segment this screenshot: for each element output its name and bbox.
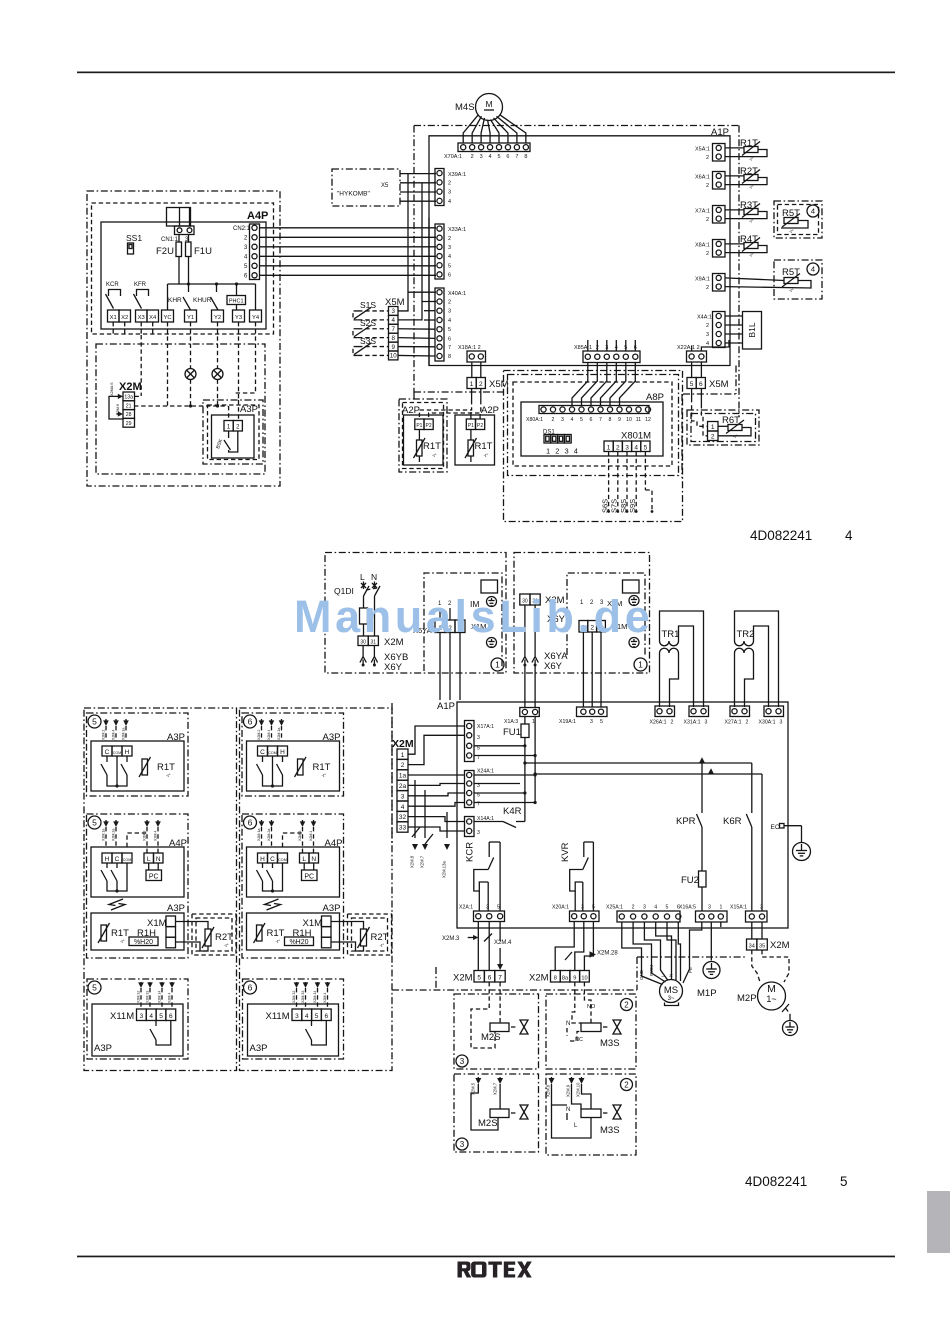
terminal strip X5M rows 3-10 — [389, 307, 399, 316]
scrap boundary dash-dot near pumps — [637, 956, 745, 958]
indoor unit IM enclosure right (dash-dot) — [567, 573, 645, 655]
svg-text:M2S: M2S — [478, 1118, 498, 1129]
detail-1 badge left — [491, 658, 504, 671]
svg-text:2: 2 — [401, 762, 405, 769]
A8P dashed enclosure — [513, 382, 672, 466]
svg-text:COM: COM — [268, 751, 276, 755]
svg-text:8a: 8a — [562, 975, 569, 981]
connector X6A — [713, 172, 726, 190]
svg-text:H: H — [260, 856, 265, 863]
svg-text:2: 2 — [706, 285, 709, 291]
svg-text:A3P: A3P — [167, 903, 185, 914]
svg-text:5: 5 — [315, 1013, 319, 1020]
svg-text:S8S: S8S — [619, 499, 628, 513]
motor M4S — [476, 94, 503, 121]
svg-text:X80A:1: X80A:1 — [526, 417, 543, 423]
svg-text:KVR: KVR — [560, 842, 571, 862]
svg-text:9: 9 — [391, 344, 395, 351]
svg-text:3~: 3~ — [668, 996, 675, 1002]
svg-text:R1T: R1T — [157, 762, 175, 773]
svg-text:1: 1 — [495, 660, 500, 670]
svg-text:12: 12 — [645, 417, 651, 423]
svg-text:P2: P2 — [477, 423, 483, 429]
terminal Y3 — [233, 310, 245, 322]
svg-text:2: 2 — [448, 236, 451, 242]
dashed link to L N — [127, 833, 147, 847]
PCB A2P right outline — [455, 415, 495, 465]
svg-text:1: 1 — [711, 424, 715, 431]
wires X2A down to X2M 5 6 7 — [477, 922, 479, 972]
svg-text:C: C — [115, 856, 120, 863]
svg-text:X39A:1: X39A:1 — [448, 172, 466, 178]
svg-text:X4A:1: X4A:1 — [697, 315, 712, 321]
svg-text:Y1: Y1 — [187, 315, 194, 321]
PCB A3P humidity outline — [91, 913, 184, 950]
interface arrows — [265, 899, 279, 906]
svg-text:KFR: KFR — [134, 282, 147, 288]
bus wires X24A — [474, 774, 535, 776]
svg-text:35: 35 — [759, 943, 765, 949]
svg-text:2: 2 — [706, 183, 709, 189]
ROTEX logo — [457, 1262, 531, 1278]
sensor R2T — [361, 929, 367, 946]
svg-text:X27A:1: X27A:1 — [725, 720, 742, 726]
svg-text:6: 6 — [169, 1013, 173, 1020]
connector X40A — [435, 288, 444, 361]
svg-text:11: 11 — [636, 417, 641, 423]
svg-text:6: 6 — [244, 273, 248, 279]
svg-text:5: 5 — [497, 905, 500, 911]
sensor option box R5T upper — [774, 201, 822, 238]
svg-text:6: 6 — [506, 154, 509, 160]
M2P switch and earth — [782, 1004, 789, 1012]
svg-text:-t°: -t° — [749, 219, 754, 224]
A4P external option boundary (dash-dot) — [87, 191, 280, 486]
svg-text:1a: 1a — [399, 773, 407, 780]
svg-text:X2M.8: X2M.8 — [546, 1084, 551, 1097]
sensor R2T — [205, 929, 211, 946]
terminal strip X2M rows — [123, 392, 135, 401]
terminal Y1 — [185, 310, 197, 322]
pressure sensor R1T in A2P left — [417, 440, 423, 456]
svg-text:5: 5 — [690, 381, 694, 388]
connector X24A — [465, 771, 475, 808]
svg-text:4: 4 — [845, 528, 853, 543]
svg-text:1 2 3 4: 1 2 3 4 — [546, 447, 579, 456]
connector CN2 — [250, 224, 260, 280]
wires X85A down to X80A — [572, 363, 588, 407]
wires X1M to R2T — [176, 922, 209, 930]
svg-text:8: 8 — [448, 354, 451, 360]
thermostat contacts — [106, 756, 108, 762]
IM terminals 1 2 3 left — [435, 620, 445, 633]
svg-text:5: 5 — [448, 263, 451, 269]
svg-text:X2M: X2M — [529, 973, 549, 984]
svg-text:F2U: F2U — [156, 246, 174, 257]
tap wires to X40A rows 1-2 — [408, 174, 436, 293]
transformer TR2 — [735, 611, 779, 707]
terminal Y2 — [212, 310, 224, 322]
wire Y4 feed — [255, 284, 257, 310]
svg-text:4: 4 — [706, 341, 709, 347]
wires IM left down to A1P — [439, 671, 441, 700]
A8P outer enclosure (dash-dot) — [504, 371, 683, 522]
svg-text:8: 8 — [391, 335, 395, 342]
svg-text:X2M: X2M — [392, 738, 414, 750]
field option box detail-1 left (dash-dot) — [325, 553, 506, 674]
field wire arrows B — [261, 820, 263, 824]
wires X9A to R5T — [725, 278, 784, 281]
bottom rule — [77, 1256, 895, 1258]
svg-text:X2M.32: X2M.32 — [137, 991, 141, 1003]
terminals C COM H — [258, 746, 268, 756]
svg-text:-t°: -t° — [166, 773, 171, 778]
wire to X15A:3 — [761, 774, 763, 911]
svg-text:X16A:5: X16A:5 — [679, 905, 696, 911]
svg-text:K6R: K6R — [723, 816, 742, 827]
svg-text:X2M.1a: X2M.1a — [102, 829, 106, 841]
svg-text:R1T: R1T — [475, 441, 493, 452]
wires X2M to X24A — [408, 774, 465, 776]
PCB A4P outline — [101, 222, 266, 329]
svg-text:R1T: R1T — [111, 928, 129, 939]
svg-text:3: 3 — [625, 444, 629, 451]
svg-text:KHR: KHR — [168, 297, 182, 304]
svg-text:N: N — [311, 856, 316, 863]
field wiring dash-dot right of A8P — [683, 393, 736, 395]
connector X4A — [713, 312, 726, 348]
svg-text:X2M.2a: X2M.2a — [112, 829, 116, 841]
svg-text:X1M: X1M — [147, 918, 167, 929]
svg-text:7: 7 — [391, 326, 395, 333]
svg-text:2: 2 — [706, 155, 709, 161]
earth in IM left lower — [487, 638, 497, 648]
svg-text:B1L: B1L — [747, 322, 757, 337]
pump M1P earth — [703, 962, 720, 979]
svg-text:X2M.14: X2M.14 — [313, 991, 317, 1003]
wires X85A up — [587, 340, 589, 351]
svg-text:2: 2 — [711, 434, 715, 441]
svg-text:NC: NC — [575, 1037, 583, 1043]
lamp on Y1 wire — [190, 322, 192, 369]
svg-text:X26A:1: X26A:1 — [650, 720, 667, 726]
svg-text:29: 29 — [126, 421, 132, 427]
svg-text:X15A:1: X15A:1 — [730, 905, 747, 911]
svg-text:2: 2 — [671, 720, 674, 726]
plug X6YA X6Y right — [524, 605, 526, 656]
svg-text:6: 6 — [590, 417, 593, 423]
svg-text:H: H — [280, 749, 285, 756]
connector X5A — [713, 144, 726, 162]
svg-text:R1T: R1T — [267, 928, 285, 939]
svg-text:X9A:1: X9A:1 — [695, 277, 710, 283]
svg-text:1: 1 — [401, 752, 405, 759]
svg-text:2: 2 — [479, 381, 483, 388]
svg-text:M: M — [485, 99, 492, 109]
svg-text:PC: PC — [149, 874, 159, 881]
connector CN1 — [175, 226, 195, 235]
svg-text:-t°: -t° — [484, 453, 489, 458]
field wires going down sheet — [414, 780, 416, 838]
wires X4A to B1L — [725, 315, 743, 317]
svg-text:2: 2 — [624, 1000, 629, 1009]
svg-text:X2M.1a: X2M.1a — [277, 728, 281, 740]
room thermostat box A3P (dash-dot) — [87, 713, 189, 796]
svg-text:3: 3 — [705, 720, 708, 726]
svg-text:M4S: M4S — [455, 102, 475, 113]
svg-text:6: 6 — [248, 818, 253, 828]
svg-text:4: 4 — [811, 207, 815, 216]
svg-text:SS1: SS1 — [126, 233, 142, 243]
detail badge B — [88, 816, 101, 829]
svg-text:M3S: M3S — [600, 1125, 620, 1136]
wires X801M to remote switches — [608, 452, 610, 512]
svg-text:X11M: X11M — [110, 1011, 134, 1022]
svg-text:X2M.32: X2M.32 — [292, 991, 296, 1003]
terminals H C COM col — [102, 853, 112, 863]
A1P switchbox boundary (dash-dot) — [414, 125, 739, 127]
A4P inner dashed enclosure — [92, 203, 274, 334]
svg-text:X1: X1 — [110, 315, 117, 321]
svg-text:-t°: -t° — [789, 229, 794, 234]
svg-text:X2M.2a: X2M.2a — [267, 829, 271, 841]
svg-text:X2M: X2M — [453, 973, 473, 984]
valve M2S upper — [520, 1020, 528, 1034]
A8P enclosure (dash-dot) — [508, 375, 679, 476]
svg-text:2: 2 — [632, 905, 635, 911]
svg-text:X3: X3 — [138, 315, 145, 321]
option column boundary (dash-dot) — [84, 708, 237, 1071]
connector X30A — [764, 706, 784, 717]
svg-text:X5M: X5M — [489, 379, 509, 390]
terminal X801M — [604, 441, 613, 452]
svg-text:X5M: X5M — [709, 379, 729, 390]
valve M3S upper — [613, 1020, 621, 1034]
svg-text:EC: EC — [771, 824, 780, 831]
svg-text:7: 7 — [599, 417, 602, 423]
wires X25A to fan motor — [622, 922, 663, 985]
svg-text:5: 5 — [477, 974, 481, 981]
svg-text:KCR: KCR — [106, 282, 119, 288]
svg-text:N: N — [371, 572, 377, 582]
svg-text:3: 3 — [643, 905, 646, 911]
svg-text:MS: MS — [664, 985, 678, 996]
svg-text:R2T: R2T — [215, 932, 233, 943]
detail-3 badge upper — [456, 1055, 468, 1067]
svg-text:X6Y: X6Y — [544, 661, 563, 672]
svg-text:P2: P2 — [426, 423, 432, 429]
svg-text:KHUR: KHUR — [193, 297, 212, 304]
svg-text:X2M.1a: X2M.1a — [122, 728, 126, 740]
wires IM right down to X19A — [582, 632, 584, 707]
feed wire to KPR — [525, 762, 752, 764]
svg-text:4: 4 — [149, 1013, 153, 1020]
svg-text:X33A:1: X33A:1 — [448, 227, 466, 233]
valve M2S lower — [520, 1105, 528, 1119]
svg-text:N: N — [156, 856, 161, 863]
svg-text:X6Y: X6Y — [384, 662, 403, 673]
wires M4S to X70A — [463, 115, 478, 143]
svg-text:4: 4 — [571, 417, 574, 423]
PCB A3P outline — [212, 415, 255, 458]
svg-text:L: L — [147, 856, 151, 863]
svg-text:X2M.3: X2M.3 — [442, 936, 460, 942]
svg-text:3: 3 — [590, 719, 593, 725]
option box M2S lower (dash-dot) — [454, 1074, 539, 1152]
svg-text:X7A:1: X7A:1 — [695, 209, 710, 215]
dashed link to L N — [283, 833, 303, 847]
svg-text:X2M.33: X2M.33 — [146, 991, 150, 1003]
svg-text:X2M.1a: X2M.1a — [257, 829, 261, 841]
sensor R1T lower — [257, 925, 263, 941]
connector X8A — [713, 240, 726, 258]
svg-text:C: C — [270, 856, 275, 863]
wires X18A to X5M 1 2 — [471, 362, 473, 378]
svg-text:3: 3 — [140, 1013, 144, 1020]
stub wires X40A 3-4 — [424, 310, 435, 312]
svg-text:X6A:1: X6A:1 — [695, 175, 710, 181]
svg-text:5: 5 — [580, 417, 583, 423]
top rule — [77, 72, 895, 74]
svg-text:PWM: PWM — [649, 965, 654, 976]
connector X33A — [435, 224, 444, 279]
cable duct to A4P — [167, 208, 191, 227]
svg-text:4: 4 — [654, 905, 657, 911]
connector X27A — [730, 706, 750, 717]
svg-text:X2M.4: X2M.4 — [323, 993, 327, 1003]
connector X85A — [583, 351, 640, 363]
arrow into X2M 7 — [499, 948, 501, 967]
svg-text:R2T: R2T — [371, 932, 389, 943]
svg-text:R5T: R5T — [782, 267, 800, 278]
option box A2P left — [399, 399, 447, 472]
svg-text:4: 4 — [634, 444, 638, 451]
svg-text:X18A:1 2: X18A:1 2 — [458, 345, 481, 351]
PCB A1P diagram5 outline — [457, 702, 788, 928]
svg-text:6: 6 — [699, 381, 703, 388]
connector X7A — [713, 206, 726, 224]
svg-text:FU2: FU2 — [681, 875, 699, 886]
svg-text:2: 2 — [448, 180, 451, 186]
svg-text:N: N — [566, 1021, 570, 1027]
option box M3S upper (dash-dot) — [546, 994, 636, 1069]
svg-text:33: 33 — [399, 825, 407, 832]
svg-text:2: 2 — [552, 417, 555, 423]
svg-text:Y2: Y2 — [214, 315, 221, 321]
svg-text:M2P: M2P — [737, 993, 757, 1004]
wires X5M to A2P — [471, 389, 473, 401]
svg-text:X2: X2 — [121, 315, 128, 321]
A3P terminals 1 2 — [224, 421, 233, 432]
svg-text:X801M: X801M — [621, 431, 651, 442]
svg-text:3: 3 — [480, 154, 483, 160]
PCB A3P outline — [91, 741, 184, 791]
svg-text:A3P: A3P — [94, 1043, 112, 1054]
detail-3 badge lower — [456, 1138, 468, 1150]
svg-text:K4R: K4R — [503, 806, 522, 817]
detail badge C — [88, 981, 101, 994]
svg-text:X2M.7: X2M.7 — [420, 855, 425, 868]
wires CN2 to X33A — [259, 227, 436, 229]
switch marks on X2M wires — [412, 827, 420, 837]
svg-text:2: 2 — [746, 720, 749, 726]
field wiring dash-dot left of A8P — [413, 392, 415, 399]
svg-text:2: 2 — [624, 1080, 629, 1089]
valve actuator M3S upper — [581, 1023, 601, 1032]
svg-text:X11M: X11M — [266, 1011, 290, 1022]
svg-text:4: 4 — [811, 265, 815, 274]
svg-text:ManualsLib.de: ManualsLib.de — [294, 591, 653, 642]
svg-text:X2M.4: X2M.4 — [154, 831, 158, 841]
svg-text:-t°: -t° — [120, 939, 125, 944]
svg-text:4D082241: 4D082241 — [745, 1174, 807, 1189]
detail-2 badge upper — [621, 999, 633, 1011]
svg-text:X2A:1: X2A:1 — [459, 905, 473, 911]
connector X80A — [539, 406, 649, 414]
svg-text:L: L — [574, 1123, 578, 1129]
svg-text:4: 4 — [305, 1013, 309, 1020]
feed wire to K6R — [535, 773, 762, 775]
wires X5M to X40A — [398, 292, 408, 311]
svg-text:5: 5 — [448, 327, 451, 333]
svg-text:COM: COM — [278, 858, 286, 862]
svg-text:S1S: S1S — [360, 300, 376, 310]
PCB A2P left outline — [404, 415, 444, 465]
svg-text:C: C — [260, 749, 265, 756]
M2S coil wiring dashed top — [471, 982, 495, 1048]
svg-text:YC: YC — [163, 315, 171, 321]
humidistat option box (dash-dot) — [87, 814, 189, 958]
earth in IM left upper — [487, 597, 497, 607]
svg-text:X17A:1: X17A:1 — [477, 724, 494, 730]
connector X26A — [655, 706, 675, 717]
terminal X1 X2 — [108, 310, 120, 322]
terminal X11M 3 4 5 6 — [292, 1009, 302, 1021]
svg-text:CN2:1: CN2:1 — [233, 226, 251, 232]
terminal X5M 1 2 — [467, 378, 476, 389]
wires into A3P — [228, 406, 230, 421]
svg-text:M3S: M3S — [600, 1038, 620, 1049]
PCB A4P col outline — [247, 847, 340, 897]
sensor option R2T (dashed) — [348, 914, 392, 955]
svg-text:PC: PC — [304, 874, 314, 881]
svg-text:A3P: A3P — [250, 1043, 268, 1054]
svg-text:28: 28 — [126, 412, 132, 418]
A2P left terminals P1 P2 — [415, 419, 424, 430]
svg-text:L: L — [302, 856, 306, 863]
field wire arrows — [105, 719, 107, 723]
svg-text:4: 4 — [391, 317, 395, 324]
svg-text:X2M.4: X2M.4 — [494, 940, 512, 946]
svg-text:X2M: X2M — [119, 381, 142, 393]
terminal X2M 30 31 right box — [520, 594, 530, 605]
svg-text:"HYKOMB": "HYKOMB" — [337, 191, 370, 198]
svg-text:5: 5 — [592, 905, 595, 911]
svg-text:-t°: -t° — [733, 434, 738, 439]
svg-text:X2M.8: X2M.8 — [410, 855, 415, 868]
wires X15A to X2M 34 35 — [751, 922, 753, 939]
svg-text:M1P: M1P — [697, 988, 717, 999]
svg-text:X2M.9: X2M.9 — [566, 1084, 571, 1097]
IM terminal block — [481, 580, 498, 593]
plug X6YB X6Y left — [362, 646, 364, 657]
svg-text:1: 1 — [470, 381, 474, 388]
wire Y4 down — [233, 322, 256, 393]
earth IM right lower — [629, 638, 639, 648]
svg-text:6: 6 — [248, 983, 253, 993]
svg-text:X2M.2: X2M.2 — [102, 730, 106, 740]
wires X6Y plugs down to X1A — [524, 665, 526, 708]
